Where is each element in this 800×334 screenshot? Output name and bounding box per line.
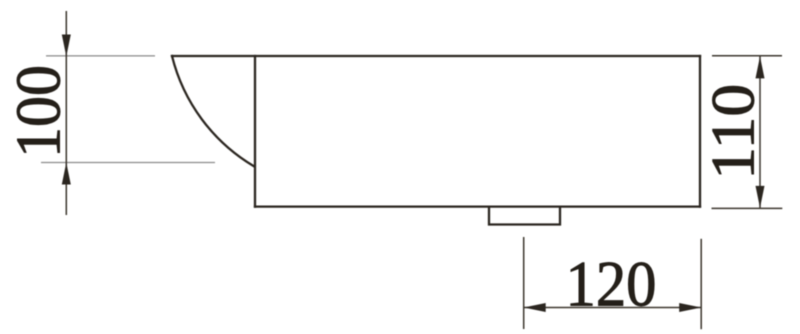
arrow down tip at (760,207.9) [756, 186, 765, 208]
top edge line [172, 55, 700, 57]
svg-text:110: 110 [701, 84, 768, 180]
extension line bottom-dim left [523, 237, 525, 329]
arrow left tip at (523.7,307.5) [524, 303, 546, 312]
left edge [254, 56, 256, 207]
extension line bottom-left (gray) [41, 162, 215, 164]
arrow down tip at (66.3,56.5) [62, 35, 71, 57]
bottom edge [255, 205, 700, 207]
dimension line 120 (horizontal, bottom) [524, 307, 702, 309]
dimension line 100 (vertical, left) [65, 11, 67, 215]
svg-text:120: 120 [566, 249, 657, 321]
tab under bottom [489, 207, 560, 225]
extension line bottom-dim right [700, 239, 702, 329]
arrow up tip at (66.3,162.5) [62, 163, 71, 185]
extension line top-right [712, 55, 782, 57]
extension line top-left (gray) [46, 55, 155, 57]
svg-text:100: 100 [4, 65, 74, 158]
dimension line 110 (vertical, right) [759, 56, 761, 208]
right edge [699, 56, 701, 207]
extension line bottom-right [712, 207, 783, 209]
arrow right tip at (701.2,307.5) [679, 303, 701, 312]
curved front profile [172, 56, 254, 166]
arrow up tip at (760,56.4) [756, 56, 765, 78]
